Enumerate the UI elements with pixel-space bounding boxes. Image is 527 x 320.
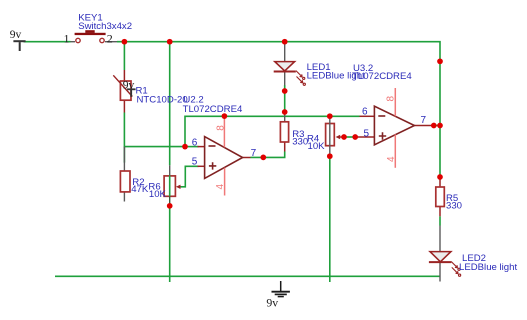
svg-text:6: 6 — [192, 137, 198, 148]
svg-text:7: 7 — [251, 148, 257, 159]
lead R1 bottom — [123, 100, 125, 112]
resistor R5 body — [436, 187, 445, 207]
svg-text:47K: 47K — [131, 184, 149, 195]
stub U2 out — [243, 157, 251, 159]
node wiper R4 a — [341, 134, 347, 140]
svg-text:330: 330 — [292, 136, 308, 147]
potentiometer R6 body — [164, 165, 180, 205]
wire R6 bottom to bottom rail — [169, 206, 171, 282]
U3 pin8 line — [394, 88, 396, 116]
wire R5 bottom bit — [439, 216, 441, 225]
lead R1 top — [123, 70, 125, 81]
stub U2 pin6 — [198, 146, 205, 148]
resistor R2 body — [120, 171, 130, 192]
node after switch — [122, 39, 128, 45]
LED1 — [274, 62, 306, 86]
pin switch right — [105, 41, 117, 43]
svg-text:LEDBlue light: LEDBlue light — [459, 262, 517, 273]
wire LED1 to junctions — [284, 85, 286, 112]
stub U3 pin6 — [360, 115, 375, 117]
power symbol 9v top-left — [13, 41, 25, 51]
svg-text:NTC10D-20: NTC10D-20 — [137, 95, 188, 106]
svg-text:4: 4 — [215, 184, 226, 190]
svg-text:1: 1 — [64, 31, 70, 45]
node LED1 lower a — [282, 88, 288, 94]
wire R4 wiper to U3 pin5 — [344, 136, 355, 138]
node wiper R4 b — [352, 134, 358, 140]
wire bottom rail — [55, 275, 440, 277]
svg-text:9v: 9v — [266, 296, 278, 310]
node U3 out b — [437, 123, 443, 129]
svg-text:5: 5 — [364, 128, 370, 139]
wire R3 bottom to U2 output — [251, 152, 285, 158]
wire U3 output to right rail — [434, 125, 440, 127]
resistor R1 body — [113, 75, 132, 100]
svg-text:7: 7 — [421, 115, 427, 126]
svg-text:9v: 9v — [10, 29, 22, 41]
lead R5 bottom — [439, 207, 441, 217]
pin LED2 bottom — [439, 262, 441, 281]
pin switch left — [71, 41, 76, 43]
component leads maroon — [124, 70, 440, 216]
resistor R3 body — [280, 122, 288, 142]
LED2 light arrows — [451, 262, 461, 277]
svg-text:10K: 10K — [149, 189, 167, 200]
R4 wiper arrow — [338, 136, 344, 138]
node R4 top — [327, 113, 333, 119]
svg-text:5: 5 — [192, 157, 198, 168]
svg-text:8: 8 — [216, 125, 227, 131]
svg-text:2: 2 — [107, 31, 113, 45]
wire junction down to R2 — [123, 147, 125, 163]
wire vertical x=170 upper — [169, 42, 171, 166]
wire drop to R1 — [123, 42, 125, 70]
pin R2 top — [123, 147, 125, 171]
node R5 top — [437, 174, 443, 180]
op-amp U2 — [205, 116, 243, 195]
pin LED1 top — [284, 42, 286, 62]
svg-text:9v: 9v — [123, 79, 135, 91]
node U3 out a — [431, 123, 437, 129]
svg-text:8: 8 — [386, 96, 397, 102]
svg-text:LEDBlue light: LEDBlue light — [307, 70, 365, 81]
LED2 — [429, 252, 461, 277]
stub U3 out — [414, 125, 433, 127]
gray pins — [71, 42, 441, 282]
svg-text:6: 6 — [362, 107, 368, 118]
power symbol 9v at R1 — [127, 89, 136, 97]
wire R4 bottom drop — [329, 156, 331, 282]
U2 pin8 line — [223, 116, 225, 147]
R6 wiper arrow — [178, 186, 181, 188]
node U2 output — [260, 155, 266, 161]
ground symbol — [272, 281, 290, 297]
wire top rail left — [24, 42, 441, 282]
pin R2 bottom dangling — [123, 192, 125, 202]
node pin6 U2 — [182, 144, 188, 150]
wire through R6 — [169, 176, 171, 197]
switch KEY1 — [75, 30, 106, 43]
potentiometer R4 body — [326, 116, 344, 156]
lead R3 bottom — [284, 142, 286, 152]
node top rail LED1 — [282, 39, 288, 45]
svg-text:10K: 10K — [308, 141, 326, 152]
LED1 light arrows — [296, 71, 306, 86]
node LED1 lower b — [282, 109, 288, 115]
op-amp U3 — [374, 88, 414, 168]
stub U2 pin5 — [198, 165, 205, 167]
pin R5-LED2 link — [439, 226, 441, 252]
U2 pin4 line — [224, 168, 226, 196]
node R4 bottom — [327, 153, 333, 159]
wire R1 bottom to junction and right — [124, 113, 185, 147]
U3 pin4 line — [394, 134, 396, 167]
pin LED1 bottom — [284, 72, 286, 86]
node right rail upper — [437, 58, 443, 64]
stub U3 pin5 — [355, 136, 374, 138]
svg-text:TL072CDRE4: TL072CDRE4 — [183, 104, 243, 115]
node U2 pin8 — [222, 113, 228, 119]
pin R3 top — [284, 112, 286, 122]
wire top rail right + right rail down — [117, 42, 440, 177]
node top rail x170 — [167, 39, 173, 45]
lead R5 top — [439, 178, 441, 187]
wire U2 pin5 to R6 wiper — [181, 166, 199, 187]
svg-text:330: 330 — [446, 201, 462, 212]
node R6 bottom — [167, 203, 173, 209]
wire pin6 feed U2 — [185, 146, 199, 148]
svg-text:Switch3x4x2: Switch3x4x2 — [78, 21, 132, 32]
svg-text:4: 4 — [386, 156, 397, 162]
R1 NTC diagonal — [113, 75, 132, 96]
wire up and long rail to U3 pin6 — [185, 116, 360, 146]
